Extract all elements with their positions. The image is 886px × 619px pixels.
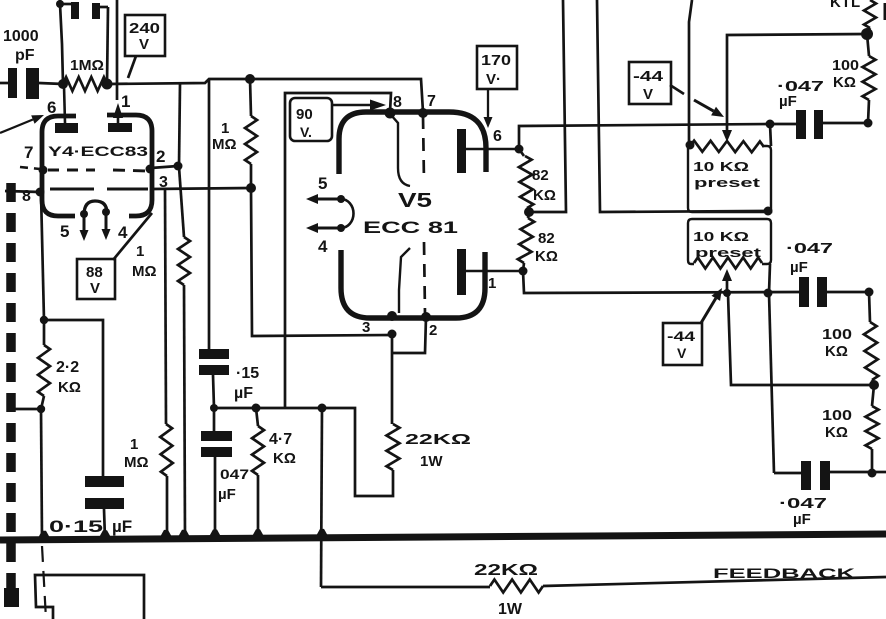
svg-text:22KΩ: 22KΩ: [405, 431, 471, 448]
svg-text:Y4·ECC83: Y4·ECC83: [48, 143, 148, 159]
svg-text:-44: -44: [633, 68, 664, 85]
svg-text:KΩ: KΩ: [825, 424, 848, 441]
svg-text:7: 7: [24, 143, 33, 162]
svg-text:KΩ: KΩ: [533, 187, 556, 204]
svg-text:100: 100: [822, 407, 852, 424]
svg-text:1: 1: [221, 120, 229, 137]
svg-text:6: 6: [493, 128, 502, 145]
svg-text:170: 170: [481, 52, 511, 69]
svg-text:MΩ: MΩ: [124, 454, 149, 471]
svg-text:V.: V.: [300, 124, 312, 140]
svg-text:1W: 1W: [498, 601, 523, 618]
svg-text:5: 5: [60, 222, 69, 241]
svg-text:µF: µF: [112, 517, 132, 536]
svg-text:1W: 1W: [420, 453, 443, 470]
svg-text:4: 4: [118, 223, 128, 242]
svg-text:5: 5: [318, 174, 327, 193]
svg-text:pF: pF: [15, 47, 35, 64]
svg-text:µF: µF: [790, 259, 808, 276]
svg-text:V: V: [643, 86, 653, 103]
svg-text:-44: -44: [667, 328, 695, 344]
svg-text:047: 047: [220, 466, 249, 482]
svg-text:1: 1: [121, 92, 130, 111]
svg-text:10 KΩ: 10 KΩ: [693, 159, 749, 174]
svg-text:MΩ: MΩ: [212, 136, 237, 153]
svg-text:240: 240: [129, 20, 160, 37]
svg-text:100: 100: [822, 326, 852, 343]
svg-text:KΩ: KΩ: [58, 379, 81, 396]
svg-text:·047: ·047: [779, 495, 827, 512]
svg-text:6: 6: [47, 98, 56, 117]
svg-text:FEEDBACK: FEEDBACK: [713, 565, 855, 581]
svg-text:2: 2: [156, 147, 165, 166]
svg-text:KΩ: KΩ: [825, 343, 848, 360]
svg-text:V: V: [139, 36, 149, 53]
svg-text:KΩ: KΩ: [833, 74, 856, 91]
svg-text:KIL: KIL: [830, 0, 863, 11]
svg-text:82: 82: [532, 167, 549, 184]
svg-text:V5: V5: [398, 190, 432, 212]
svg-text:·047: ·047: [786, 240, 833, 257]
svg-text:KΩ: KΩ: [273, 450, 296, 467]
svg-text:100: 100: [832, 57, 859, 74]
svg-text:0·15: 0·15: [49, 517, 103, 536]
svg-text:preset: preset: [695, 245, 762, 260]
svg-text:1: 1: [130, 436, 138, 453]
svg-text:µF: µF: [218, 486, 236, 503]
svg-text:KΩ: KΩ: [535, 248, 558, 265]
svg-text:µF: µF: [779, 93, 797, 110]
svg-text:µF: µF: [793, 511, 811, 528]
svg-text:4·7: 4·7: [269, 431, 292, 448]
svg-text:1: 1: [488, 275, 496, 292]
svg-text:22KΩ: 22KΩ: [474, 562, 538, 579]
svg-text:3: 3: [362, 319, 370, 336]
svg-text:·15: ·15: [236, 365, 259, 382]
svg-text:1: 1: [136, 243, 144, 260]
svg-text:2: 2: [429, 322, 437, 339]
svg-text:8: 8: [22, 188, 31, 205]
svg-text:4: 4: [318, 237, 328, 256]
svg-text:preset: preset: [694, 175, 761, 190]
svg-text:MΩ: MΩ: [132, 263, 157, 280]
svg-text:8: 8: [393, 94, 402, 111]
svg-text:V: V: [677, 345, 687, 361]
svg-text:V·: V·: [486, 71, 501, 88]
svg-text:90: 90: [296, 106, 313, 123]
svg-text:2·2: 2·2: [56, 359, 79, 376]
svg-text:10 KΩ: 10 KΩ: [693, 229, 749, 244]
svg-text:7: 7: [427, 93, 436, 110]
svg-text:µF: µF: [234, 385, 253, 402]
svg-text:V: V: [90, 280, 100, 297]
svg-text:1000: 1000: [3, 28, 39, 45]
svg-text:1MΩ: 1MΩ: [70, 57, 104, 74]
svg-text:82: 82: [538, 230, 555, 247]
svg-text:88: 88: [86, 264, 103, 281]
svg-text:ECC 81: ECC 81: [363, 218, 458, 237]
